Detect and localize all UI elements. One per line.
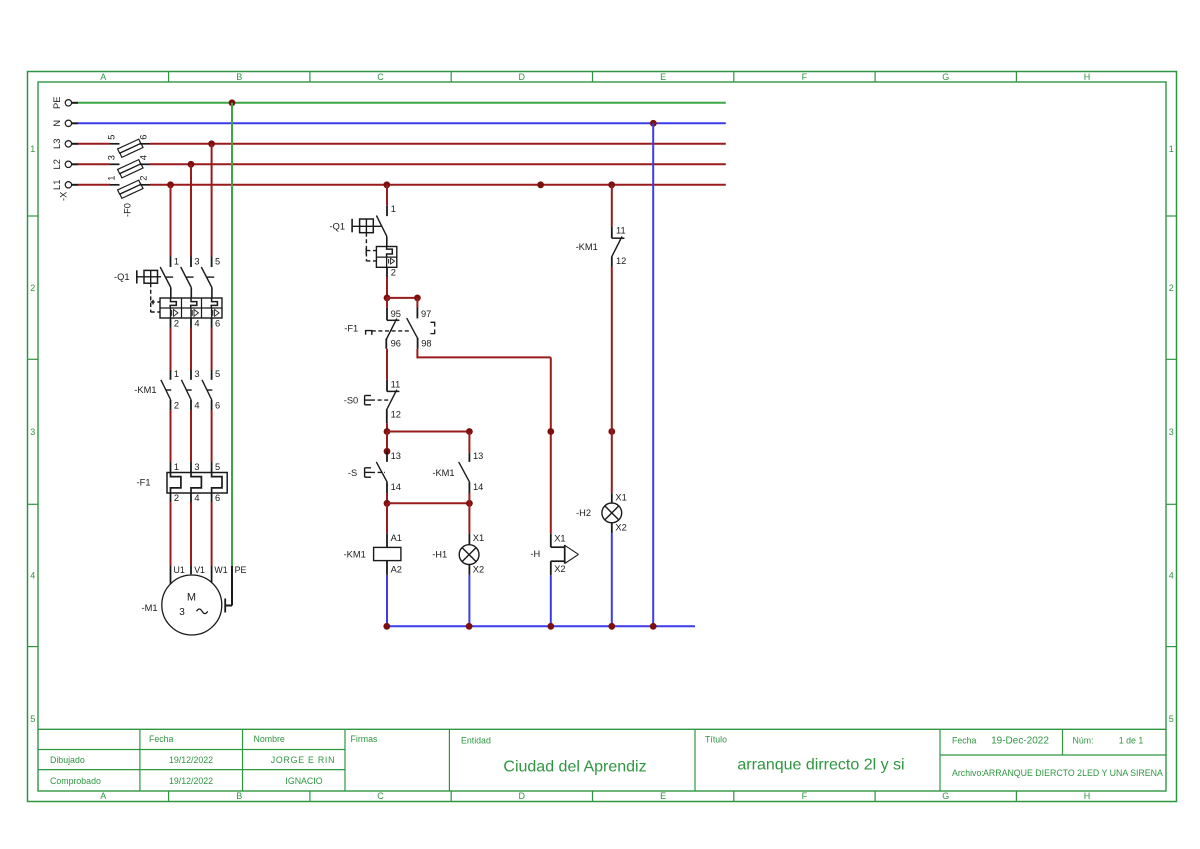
wire -F1 to motor pole1 (170, 502, 172, 566)
svg-text:-S0: -S0 (344, 395, 358, 405)
svg-text:H: H (1084, 72, 1091, 82)
junction N bus KM1 (383, 623, 390, 630)
circuit breaker -Q1 (control, 1-pole) (352, 204, 397, 278)
svg-text:C: C (377, 72, 384, 82)
svg-text:X2: X2 (554, 564, 565, 574)
wire node B to -S (386, 432, 388, 452)
svg-text:13: 13 (473, 451, 483, 461)
label -F1 (aux) (344, 324, 358, 334)
svg-text:6: 6 (215, 319, 220, 329)
wire node B to -KM1 aux (387, 431, 469, 433)
svg-text:-S: -S (348, 468, 357, 478)
junction KM1 aux top (466, 428, 473, 435)
wire L2 to -Q1 pole2 (190, 164, 192, 256)
fuse -F0 pole 1-2 (L1) (106, 176, 150, 199)
svg-text:C: C (377, 791, 384, 801)
wire -Q1 to -KM1 pole3 (211, 328, 213, 371)
junction N bus H1 (466, 623, 473, 630)
junction L1 control tap (383, 181, 390, 188)
terminal L3 (52, 139, 78, 149)
junction node B (384, 428, 391, 435)
terminal L1 (52, 180, 78, 190)
svg-text:1: 1 (174, 462, 179, 472)
junction L1-pole1 (167, 181, 174, 188)
terminal L2 (52, 159, 78, 169)
svg-text:arranque dirrecto 2l y si: arranque dirrecto 2l y si (737, 757, 904, 774)
svg-text:B: B (236, 791, 242, 801)
pushbutton -S0 (NC stop) (365, 379, 401, 423)
svg-text:19-Dec-2022: 19-Dec-2022 (991, 736, 1049, 747)
svg-text:2: 2 (174, 401, 179, 411)
svg-text:F: F (802, 791, 808, 801)
terminal PE (52, 97, 78, 109)
thermal overload relay -F1 (167, 462, 227, 503)
svg-text:G: G (942, 791, 949, 801)
svg-text:5: 5 (30, 714, 35, 724)
svg-text:Nombre: Nombre (254, 734, 285, 744)
siren -H (551, 534, 579, 576)
contact -F1 95-96 (NC) (366, 298, 412, 349)
svg-text:ARRANQUE DIERCTO 2LED Y UNA SI: ARRANQUE DIERCTO 2LED Y UNA SIRENA (983, 768, 1163, 778)
svg-text:-F1: -F1 (344, 324, 358, 334)
svg-text:5: 5 (215, 256, 220, 266)
fuse -F0 pole 3-4 (L2) (106, 155, 150, 178)
svg-text:11: 11 (391, 379, 401, 389)
wire L1 to control -Q1 (386, 185, 388, 206)
svg-text:11: 11 (616, 225, 626, 235)
svg-text:IGNACIO: IGNACIO (285, 776, 322, 786)
svg-text:-Q1: -Q1 (330, 222, 346, 232)
label -KM1 (main) (134, 385, 156, 395)
svg-text:L3: L3 (52, 139, 62, 149)
wire -KM1 coil to N bus (386, 575, 388, 626)
label -S (348, 468, 357, 478)
svg-text:Núm:: Núm: (1073, 736, 1094, 746)
svg-text:X2: X2 (615, 523, 626, 533)
wire -KM1 to -F1 pole2 (190, 410, 192, 462)
svg-text:Entidad: Entidad (461, 736, 491, 746)
svg-text:-KM1: -KM1 (432, 468, 454, 478)
svg-text:E: E (660, 791, 666, 801)
label -Q1 (control) (330, 222, 346, 232)
svg-text:-H: -H (530, 549, 540, 559)
svg-text:-F0: -F0 (123, 203, 133, 217)
label -KM1 (NC) (576, 242, 598, 252)
svg-text:4: 4 (1169, 571, 1174, 581)
svg-text:19/12/2022: 19/12/2022 (169, 776, 213, 786)
svg-text:14: 14 (391, 482, 401, 492)
svg-text:X1: X1 (554, 534, 565, 544)
junction N bus H2 (608, 623, 615, 630)
svg-text:5: 5 (215, 462, 220, 472)
svg-text:Firmas: Firmas (351, 734, 378, 744)
svg-text:W1: W1 (214, 565, 227, 575)
wire -S to node C (386, 493, 388, 503)
wire -H2 to N bus (611, 533, 613, 626)
svg-text:PE: PE (52, 97, 62, 109)
svg-text:Título: Título (705, 735, 727, 745)
svg-text:A2: A2 (391, 565, 402, 575)
svg-text:D: D (519, 72, 526, 82)
svg-text:3: 3 (106, 155, 116, 160)
svg-text:6: 6 (138, 135, 148, 140)
coil -KM1 (374, 503, 402, 575)
svg-text:96: 96 (391, 338, 401, 348)
label -M1 (142, 603, 158, 613)
wire N drop (652, 123, 654, 626)
svg-text:PE: PE (235, 565, 247, 575)
svg-text:X1: X1 (473, 533, 484, 543)
pushbutton -S (NO start) (365, 451, 401, 493)
wire -S0 to node B (386, 423, 388, 431)
junction siren column (547, 428, 554, 435)
svg-text:L1: L1 (52, 180, 62, 190)
svg-text:1 de 1: 1 de 1 (1119, 736, 1144, 746)
contact -F1 97-98 (NO) (407, 298, 435, 349)
terminal block -X (58, 192, 68, 201)
svg-text:4: 4 (138, 155, 148, 160)
svg-text:3: 3 (194, 462, 199, 472)
svg-text:5: 5 (1169, 714, 1174, 724)
label -Q1 (main) (114, 272, 130, 282)
svg-text:V1: V1 (194, 565, 205, 575)
svg-text:-KM1: -KM1 (344, 550, 366, 560)
junction L3-pole3 (208, 140, 215, 147)
wire L3 to -Q1 pole3 (211, 144, 213, 257)
svg-text:-KM1: -KM1 (576, 242, 598, 252)
motor -M1 (162, 565, 247, 635)
svg-text:6: 6 (215, 493, 220, 503)
svg-text:N: N (52, 120, 62, 127)
svg-text:2: 2 (391, 268, 396, 278)
svg-text:12: 12 (616, 256, 626, 266)
junction H1 top (466, 500, 473, 507)
svg-text:A: A (100, 72, 106, 82)
svg-text:Ciudad del Aprendiz: Ciudad del Aprendiz (503, 758, 646, 775)
svg-text:3: 3 (179, 607, 185, 618)
wire -KM1 aux to node (468, 493, 470, 503)
junction node A (384, 295, 391, 302)
svg-text:1: 1 (1169, 144, 1174, 154)
svg-text:3: 3 (1169, 427, 1174, 437)
wire -H1 to N bus (468, 575, 470, 626)
svg-text:A1: A1 (391, 533, 402, 543)
svg-text:1: 1 (174, 369, 179, 379)
svg-text:12: 12 (391, 410, 401, 420)
label -F1 (main) (137, 477, 151, 487)
label -H (530, 549, 540, 559)
svg-text:X1: X1 (615, 492, 626, 502)
contact -KM1 13-14 (NO aux) (459, 432, 484, 494)
svg-text:-Q1: -Q1 (114, 272, 130, 282)
junction L1 (unused) (537, 181, 544, 188)
label -KM1 (coil) (344, 550, 366, 560)
svg-text:2: 2 (174, 493, 179, 503)
label -H1 (432, 550, 447, 560)
svg-text:JORGE E RIN: JORGE E RIN (271, 755, 335, 765)
svg-text:X2: X2 (473, 565, 484, 575)
svg-text:2: 2 (30, 283, 35, 293)
junction 97 branch (414, 295, 421, 302)
title block (38, 729, 1166, 791)
svg-text:D: D (519, 791, 526, 801)
fuse -F0 pole 5-6 (L3) (106, 135, 150, 158)
svg-text:A: A (100, 791, 106, 801)
svg-text:2: 2 (174, 319, 179, 329)
svg-text:1: 1 (174, 256, 179, 266)
junction L1 KM1-NC tap (608, 181, 615, 188)
svg-text:Comprobado: Comprobado (50, 776, 101, 786)
svg-text:-F1: -F1 (137, 477, 151, 487)
svg-text:Dibujado: Dibujado (50, 755, 85, 765)
svg-text:98: 98 (421, 338, 431, 348)
svg-text:M: M (187, 592, 196, 604)
wire PE drop to motor (225, 103, 232, 613)
lamp -H2 (602, 492, 627, 533)
svg-text:1: 1 (106, 176, 116, 181)
wire L1 to -Q1 pole1 (170, 185, 172, 257)
junction N bus siren (547, 623, 554, 630)
svg-text:1: 1 (391, 204, 396, 214)
svg-text:Fecha: Fecha (149, 734, 174, 744)
svg-text:3: 3 (194, 369, 199, 379)
circuit breaker -Q1 (3-pole motor breaker) (137, 256, 222, 328)
wire -Q1 to -KM1 pole1 (170, 328, 172, 371)
wire -KM1 to -F1 pole3 (211, 410, 213, 462)
wire L1 rail (78, 184, 726, 186)
wire 96 to -S0 (386, 349, 388, 380)
junction H2 column (608, 428, 615, 435)
svg-text:13: 13 (391, 451, 401, 461)
wire node C to H1 (387, 502, 469, 504)
lamp -H1 (459, 503, 484, 575)
junction L2-pole2 (188, 161, 195, 168)
svg-text:Fecha: Fecha (952, 736, 977, 746)
wire L3 rail (78, 143, 726, 145)
svg-text:Archivo:: Archivo: (952, 768, 984, 778)
svg-text:2: 2 (138, 176, 148, 181)
svg-text:1: 1 (30, 144, 35, 154)
wire -KM1 NC to -H2 (611, 267, 613, 494)
svg-text:E: E (660, 72, 666, 82)
label -H2 (576, 508, 591, 518)
svg-text:U1: U1 (174, 565, 185, 575)
wire N bottom bus (387, 625, 695, 627)
svg-text:G: G (942, 72, 949, 82)
label -KM1 (aux) (432, 468, 454, 478)
wire -Q1 to node (386, 277, 388, 298)
svg-text:-KM1: -KM1 (134, 385, 156, 395)
wire -KM1 to -F1 pole1 (170, 410, 172, 462)
wire -F1 to motor pole3 (211, 502, 213, 566)
svg-text:-X: -X (58, 192, 68, 201)
svg-text:5: 5 (106, 135, 116, 140)
wire L2 rail (78, 163, 726, 165)
svg-text:5: 5 (215, 369, 220, 379)
svg-text:H: H (1084, 791, 1091, 801)
contact -KM1 11-12 (NC) (612, 185, 627, 267)
svg-text:-H1: -H1 (432, 550, 447, 560)
contactor -KM1 main contacts (161, 369, 220, 411)
svg-text:2: 2 (1169, 283, 1174, 293)
svg-text:6: 6 (215, 401, 220, 411)
junction PE drop (229, 99, 236, 106)
svg-text:-H2: -H2 (576, 508, 591, 518)
wire -H to N bus (550, 575, 552, 626)
wire node to 97 branch (387, 297, 417, 299)
junction -S top (384, 448, 391, 455)
terminal N (52, 120, 78, 127)
svg-text:B: B (236, 72, 242, 82)
wire -F1 to motor pole2 (190, 502, 192, 566)
svg-text:L2: L2 (52, 159, 62, 169)
wire -Q1 to -KM1 pole2 (190, 328, 192, 371)
svg-text:4: 4 (30, 571, 35, 581)
junction N bus N drop (650, 623, 657, 630)
svg-text:97: 97 (421, 309, 431, 319)
label -F0 (123, 203, 133, 217)
wire N rail (78, 122, 726, 124)
svg-text:4: 4 (194, 401, 199, 411)
junction node C (384, 500, 391, 507)
svg-text:4: 4 (194, 493, 199, 503)
svg-text:3: 3 (30, 427, 35, 437)
svg-text:95: 95 (391, 309, 401, 319)
junction N drop (650, 120, 657, 127)
label -S0 (344, 395, 358, 405)
svg-text:F: F (802, 72, 808, 82)
wire PE rail (78, 102, 726, 104)
svg-text:4: 4 (194, 319, 199, 329)
wire 98 to siren branch (417, 349, 550, 534)
svg-text:-M1: -M1 (142, 603, 158, 613)
svg-text:3: 3 (194, 256, 199, 266)
svg-text:19/12/2022: 19/12/2022 (169, 755, 213, 765)
svg-text:14: 14 (473, 482, 483, 492)
